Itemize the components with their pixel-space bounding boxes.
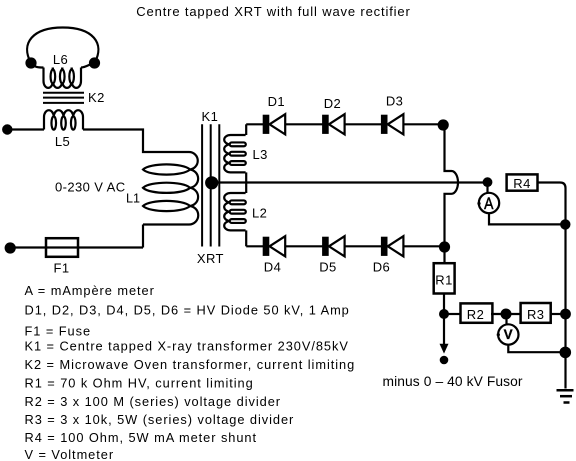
svg-text:A = mAmpère meter: A = mAmpère meter	[25, 283, 155, 298]
svg-text:D5: D5	[319, 260, 336, 275]
svg-text:K2 = Microwave Oven transforme: K2 = Microwave Oven transformer, current…	[25, 357, 356, 372]
svg-text:R1 = 70 k Ohm HV, current limi: R1 = 70 k Ohm HV, current limiting	[25, 376, 254, 391]
svg-text:D4: D4	[264, 260, 281, 275]
svg-text:R4: R4	[513, 176, 530, 191]
svg-text:K1: K1	[202, 109, 219, 124]
svg-text:D2: D2	[324, 96, 341, 111]
svg-text:F1 = Fuse: F1 = Fuse	[25, 323, 92, 338]
svg-text:R4 = 100 Ohm, 5W mA meter shun: R4 = 100 Ohm, 5W mA meter shunt	[25, 430, 258, 445]
svg-text:L1: L1	[126, 192, 140, 206]
svg-text:L2: L2	[252, 206, 267, 221]
svg-text:V: V	[504, 327, 513, 342]
svg-text:F1: F1	[54, 260, 70, 275]
svg-text:XRT: XRT	[197, 251, 224, 266]
svg-text:K1 = Centre tapped X-ray trans: K1 = Centre tapped X-ray transformer 230…	[25, 339, 349, 354]
svg-text:D1, D2, D3, D4, D5, D6 = HV Di: D1, D2, D3, D4, D5, D6 = HV Diode 50 kV,…	[25, 302, 350, 317]
svg-text:L6: L6	[53, 52, 68, 67]
svg-text:minus 0 – 40 kV Fusor: minus 0 – 40 kV Fusor	[383, 374, 523, 389]
svg-text:L3: L3	[253, 147, 268, 162]
svg-text:D6: D6	[373, 260, 390, 275]
svg-text:0-230 V AC: 0-230 V AC	[55, 180, 126, 195]
svg-text:R2 = 3 x 100 M (series) voltag: R2 = 3 x 100 M (series) voltage divider	[25, 394, 281, 409]
svg-text:D1: D1	[268, 94, 285, 109]
svg-text:R3: R3	[527, 307, 544, 322]
svg-text:A: A	[484, 194, 494, 213]
svg-text:L5: L5	[55, 134, 70, 149]
svg-text:Centre tapped XRT with full wa: Centre tapped XRT with full wave rectifi…	[136, 4, 410, 19]
svg-text:D3: D3	[386, 94, 403, 109]
svg-text:R2: R2	[467, 307, 484, 322]
svg-text:V = Voltmeter: V = Voltmeter	[25, 447, 115, 461]
svg-text:R1: R1	[435, 273, 452, 288]
svg-text:R3 = 3 x 10k, 5W (series) volt: R3 = 3 x 10k, 5W (series) voltage divide…	[25, 412, 295, 427]
svg-text:K2: K2	[88, 90, 105, 105]
